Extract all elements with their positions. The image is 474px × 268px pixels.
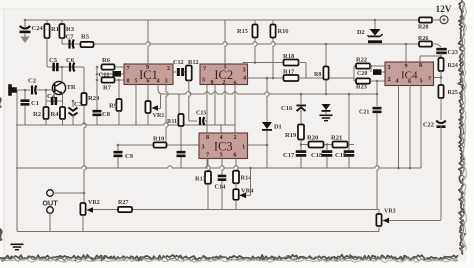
svg-text:R4: R4 xyxy=(51,111,60,118)
svg-text:C17: C17 xyxy=(283,152,295,159)
svg-text:C23: C23 xyxy=(448,50,458,56)
svg-text:R11: R11 xyxy=(167,119,177,125)
svg-text:5: 5 xyxy=(419,78,422,85)
svg-text:R23: R23 xyxy=(356,84,367,91)
svg-text:9: 9 xyxy=(146,64,149,71)
svg-text:R1: R1 xyxy=(51,26,59,33)
svg-text:C2: C2 xyxy=(28,78,37,85)
svg-text:6: 6 xyxy=(233,152,236,159)
svg-text:4: 4 xyxy=(156,78,159,85)
svg-text:3: 3 xyxy=(164,78,167,85)
svg-text:C5: C5 xyxy=(49,57,58,64)
svg-text:R16: R16 xyxy=(278,28,290,35)
svg-text:R25: R25 xyxy=(448,90,458,96)
svg-text:R18: R18 xyxy=(283,53,295,60)
svg-text:R8: R8 xyxy=(314,72,321,78)
svg-text:R29: R29 xyxy=(88,95,100,102)
svg-text:5: 5 xyxy=(219,152,222,159)
svg-text:D2: D2 xyxy=(357,29,365,36)
svg-text:9: 9 xyxy=(404,63,407,70)
svg-text:R13: R13 xyxy=(195,176,206,183)
svg-text:C9: C9 xyxy=(125,153,134,160)
svg-text:C22: C22 xyxy=(423,122,434,129)
svg-text:R27: R27 xyxy=(118,200,128,206)
svg-text:OUT: OUT xyxy=(42,199,58,208)
svg-text:C12: C12 xyxy=(173,59,184,66)
svg-text:C6: C6 xyxy=(66,57,75,64)
svg-text:R15: R15 xyxy=(237,28,248,35)
svg-text:4: 4 xyxy=(219,134,222,141)
svg-text:R5: R5 xyxy=(81,34,90,41)
svg-text:C8: C8 xyxy=(102,111,111,118)
svg-text:R26: R26 xyxy=(418,36,428,42)
svg-text:R3: R3 xyxy=(66,26,75,33)
svg-text:R9: R9 xyxy=(109,103,118,110)
svg-text:VR3: VR3 xyxy=(384,209,396,215)
svg-text:5: 5 xyxy=(202,77,205,84)
svg-text:C19: C19 xyxy=(335,152,347,159)
svg-text:C14: C14 xyxy=(215,184,227,191)
svg-text:7: 7 xyxy=(203,66,206,73)
svg-text:1: 1 xyxy=(223,64,226,71)
svg-text:1: 1 xyxy=(242,144,245,151)
svg-text:2: 2 xyxy=(233,134,236,141)
svg-text:C15: C15 xyxy=(196,111,206,117)
svg-text:C4: C4 xyxy=(47,93,56,100)
svg-text:7: 7 xyxy=(126,65,129,72)
svg-text:2: 2 xyxy=(167,65,170,72)
svg-text:8: 8 xyxy=(210,79,213,86)
svg-text:R28: R28 xyxy=(418,25,428,31)
svg-text:VR1: VR1 xyxy=(153,112,165,119)
svg-text:5: 5 xyxy=(134,78,137,85)
svg-text:C1: C1 xyxy=(31,100,39,107)
svg-text:R10: R10 xyxy=(153,136,165,143)
svg-text:R20: R20 xyxy=(307,135,319,142)
svg-text:8: 8 xyxy=(419,62,422,69)
svg-text:C18: C18 xyxy=(311,152,323,159)
svg-text:4: 4 xyxy=(395,78,398,85)
svg-text:C16: C16 xyxy=(281,105,293,112)
svg-text:VR2: VR2 xyxy=(88,200,100,206)
svg-text:R22: R22 xyxy=(356,57,367,64)
svg-text:R17: R17 xyxy=(283,69,295,76)
svg-text:R7: R7 xyxy=(103,85,112,92)
svg-text:R2: R2 xyxy=(33,111,42,118)
svg-text:TR: TR xyxy=(67,84,76,91)
svg-text:6: 6 xyxy=(408,78,411,85)
svg-text:8: 8 xyxy=(206,134,209,141)
svg-text:R6: R6 xyxy=(102,57,111,64)
svg-text:IC3: IC3 xyxy=(214,139,233,153)
svg-text:8: 8 xyxy=(126,78,129,85)
svg-text:R21: R21 xyxy=(331,135,342,142)
svg-text:7: 7 xyxy=(206,152,209,159)
svg-text:C21: C21 xyxy=(359,110,369,116)
svg-text:C24: C24 xyxy=(32,25,44,32)
svg-text:VR4: VR4 xyxy=(241,188,254,195)
svg-text:12V: 12V xyxy=(436,5,452,15)
svg-text:3: 3 xyxy=(201,144,204,151)
svg-text:4: 4 xyxy=(243,75,246,82)
svg-text:R24: R24 xyxy=(448,63,458,69)
svg-text:2: 2 xyxy=(387,76,390,83)
svg-text:D1: D1 xyxy=(274,124,282,131)
svg-text:R19: R19 xyxy=(285,132,297,139)
svg-text:7: 7 xyxy=(428,76,431,83)
svg-text:C7: C7 xyxy=(66,34,75,41)
svg-text:C20: C20 xyxy=(357,71,367,77)
svg-text:6: 6 xyxy=(146,78,149,85)
svg-text:3: 3 xyxy=(242,67,245,74)
svg-text:R12: R12 xyxy=(188,59,199,66)
svg-text:3: 3 xyxy=(387,64,390,71)
